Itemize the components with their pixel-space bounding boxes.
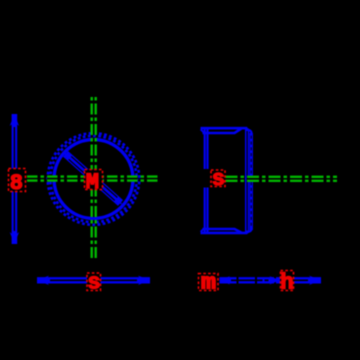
knurled outer ring (dotted circles) of front view: [48, 133, 140, 225]
label M (thread size, centre of front view): [85, 170, 103, 196]
side view left corner chamfer ticks: [201, 129, 204, 232]
left vertical dimension line: [10, 114, 19, 244]
bottom right m-h dimension line: [220, 276, 281, 284]
svg-text:s: s: [87, 271, 100, 296]
svg-text:M: M: [86, 170, 99, 195]
svg-text:s: s: [212, 167, 225, 192]
label 8 (left dimension): [9, 169, 26, 197]
svg-text:8: 8: [10, 171, 23, 196]
inner solid circle of front view: [54, 140, 133, 219]
side view left face (double edge, broken at label height): [205, 128, 208, 233]
svg-text:m: m: [201, 271, 216, 296]
bottom dimension line under front view: [37, 276, 150, 285]
side view right solid edge: [245, 130, 249, 232]
right arrow segment after h: [294, 276, 321, 285]
horizontal centerline of front view: [27, 175, 159, 181]
side view right dashed thread line (ladder look): [248, 130, 253, 232]
diagonal diameter dimension line with arrows: [64, 153, 122, 205]
side view top inner edge with chamfer: [203, 129, 242, 133]
side view top outer edge: [201, 127, 248, 130]
svg-text:h: h: [280, 271, 293, 296]
label m: [199, 271, 219, 296]
side view bottom inner edge with chamfer: [203, 229, 242, 233]
vertical centerline of front view: [90, 97, 96, 261]
label s (side view): [211, 167, 225, 192]
label h: [280, 271, 293, 296]
label s (bottom dimension): [87, 271, 101, 296]
horizontal centerline of side view: [226, 176, 338, 182]
side view bottom outer edge: [201, 232, 248, 235]
